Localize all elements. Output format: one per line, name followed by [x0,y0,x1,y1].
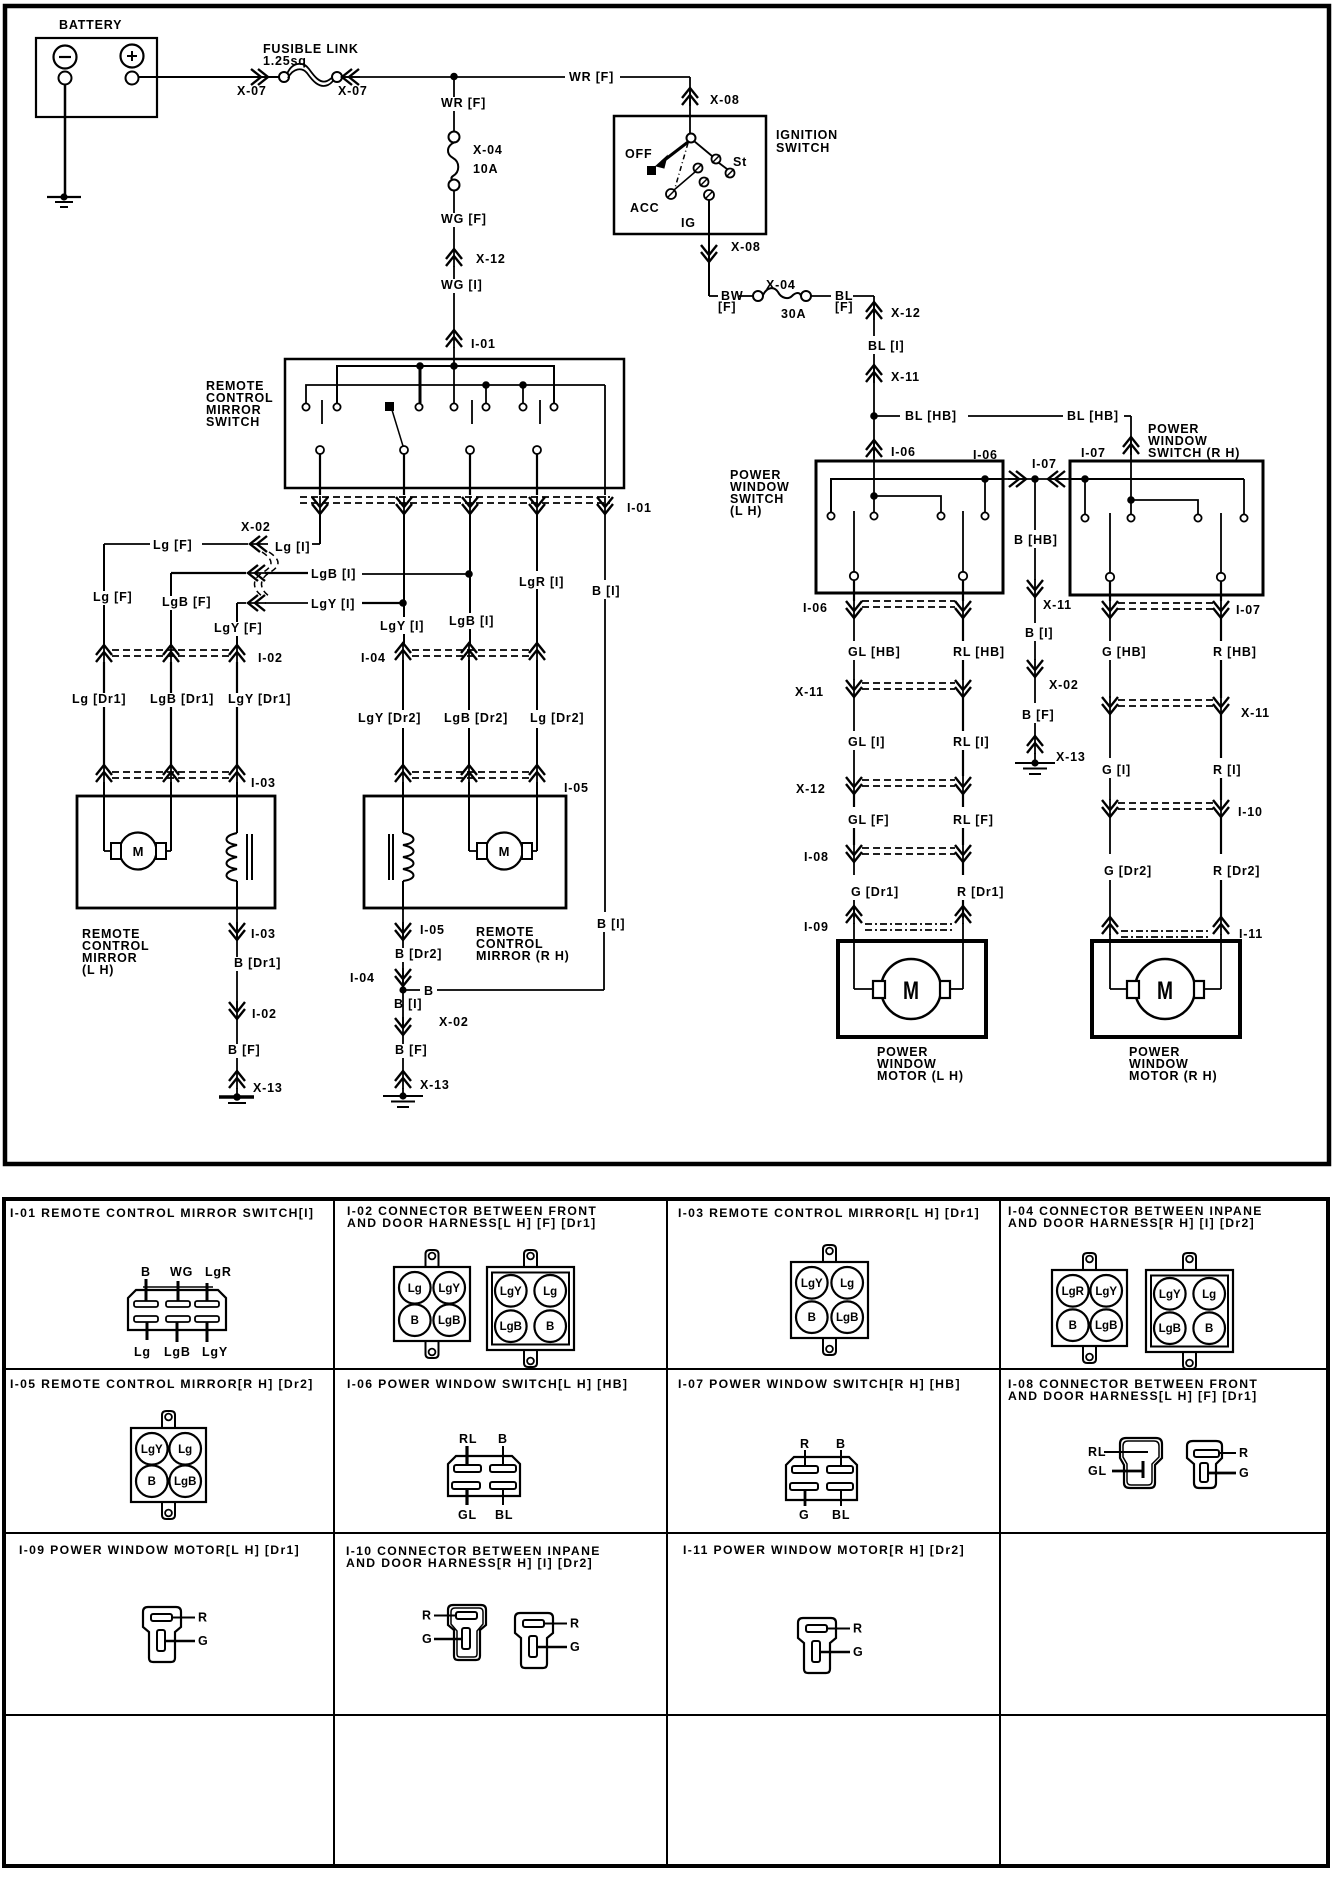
connector X-02 chevron LgY [247,602,266,604]
wire Lg [Dr2] [536,660,538,710]
connector I-07 chevron above R switch [1130,436,1132,455]
wire R [Dr2] [1220,817,1222,854]
wire LgB [Dr2] [468,660,470,710]
connector body [1052,1270,1127,1346]
svg-text:R: R [1239,1446,1249,1460]
pin lead B i06 [502,1446,504,1465]
svg-text:G: G [1239,1466,1250,1480]
RH switch feed [1130,461,1132,500]
svg-text:B: B [1205,1323,1213,1335]
svg-text:OFF: OFF [625,147,652,161]
svg-text:LgY: LgY [438,1283,460,1295]
connector X-13 chevron left [236,1070,238,1089]
svg-text:B: B [1069,1320,1077,1332]
connector X-11 chevrons [853,679,855,698]
svg-text:Lg: Lg [543,1286,557,1298]
connector I-02 dashed line [112,649,230,651]
connector X-07 right [341,76,360,78]
svg-text:LgY: LgY [1095,1286,1117,1298]
connector I-03 chevron below [236,922,238,941]
ignition IG contact [700,178,709,187]
label BW [F] [718,290,738,304]
svg-text:LgB [I]: LgB [I] [311,567,356,581]
pin GL lead line [1112,1470,1143,1473]
svg-text:RL: RL [1088,1445,1106,1459]
svg-text:GL: GL [1088,1464,1107,1478]
wire bus to I-06/I-07 [1003,478,1070,480]
pin B [534,1310,566,1342]
svg-text:R: R [422,1609,432,1623]
svg-text:I-10: I-10 [1238,805,1263,819]
svg-text:B: B [148,1476,156,1488]
svg-text:BL: BL [832,1508,850,1522]
svg-text:X-08: X-08 [731,240,761,254]
svg-text:X-12: X-12 [891,306,921,320]
pin lead LgB [176,1322,179,1342]
node LgY [I] junction [399,599,407,607]
wire G [Dr2] [1109,817,1111,854]
svg-text:I-01: I-01 [471,337,496,351]
wire LgB [I] vertical [469,514,471,613]
svg-text:LgR: LgR [1062,1286,1085,1298]
wire BL [I] [873,354,875,416]
wire B [I] vertical [604,514,606,580]
pin lead RL [465,1446,468,1465]
pin lead BL i07 [840,1490,842,1506]
pin LgB [433,1304,465,1336]
mounting tab top [1083,1253,1096,1270]
pin LgB [1154,1312,1186,1344]
connector I-09 dash-dot [865,923,952,925]
connector X-07 left [250,76,269,78]
wire RL [HB] [962,618,964,641]
connector drawing I-01 [128,1290,226,1330]
svg-text:ACC: ACC [630,201,659,215]
battery ground [47,196,81,198]
wire GL [F] [853,794,855,807]
wire WR [F] vertical [453,77,455,131]
pin LgR [1057,1275,1089,1307]
connector I-06 dashed below [862,600,955,602]
svg-text:GL: GL [458,1508,477,1522]
svg-text:R: R [198,1611,208,1625]
svg-text:(L H): (L H) [730,504,762,518]
connector I-01 chevrons [319,496,321,515]
svg-text:R [Dr2]: R [Dr2] [1213,864,1260,878]
svg-text:G: G [853,1645,864,1659]
svg-text:G: G [570,1640,581,1654]
connector I-04 chevron below [402,964,404,990]
svg-text:G [Dr1]: G [Dr1] [851,885,899,899]
svg-text:MOTOR (R H): MOTOR (R H) [1129,1069,1217,1083]
connector X-02 chevron below [402,990,404,1028]
pin lead GL [465,1489,468,1505]
svg-text:X-07: X-07 [237,84,267,98]
LH switch moving contacts [850,572,858,580]
pin LgB [1090,1309,1122,1341]
svg-text:1.25sq: 1.25sq [263,54,307,68]
svg-text:B: B [546,1321,554,1333]
mounting tab top [1183,1253,1196,1270]
RH switch contacts [1081,514,1088,521]
connector drawing I-08 right [1187,1441,1222,1488]
pin Lg [534,1275,566,1307]
connector I-08 dashed [862,847,955,849]
wires into motor RH [1109,934,1111,989]
wire WR to ignition corner [620,76,690,78]
svg-text:I-07 POWER WINDOW SWITCH[R H]: I-07 POWER WINDOW SWITCH[R H] [HB] [678,1377,961,1391]
connector I-06 chevrons below [853,600,855,619]
label B [I] mid [391,998,432,1012]
svg-text:WG: WG [170,1265,193,1279]
svg-text:SWITCH: SWITCH [776,141,830,155]
node LgB [I] junction [465,570,473,578]
svg-text:BATTERY: BATTERY [59,18,122,32]
svg-text:Lg: Lg [408,1283,422,1295]
svg-text:Lg [Dr1]: Lg [Dr1] [72,692,126,706]
mirror switch bus 1 [337,366,554,403]
node BL [HB] junction [870,412,878,420]
LH switch pole bars [853,511,855,572]
connector X-11 chevrons right [1109,696,1111,715]
node B [HB] junction [1031,475,1039,483]
svg-text:B [F]: B [F] [395,1043,427,1057]
svg-text:I-09: I-09 [804,920,829,934]
wire RL output [962,580,964,601]
svg-text:B: B [836,1437,846,1451]
svg-text:WR [F]: WR [F] [441,96,486,110]
connector I-10 chevrons [1109,799,1111,818]
svg-text:G [I]: G [I] [1102,763,1131,777]
diagram border frame [5,6,1329,1164]
svg-text:X-11: X-11 [795,685,824,699]
pin B [1193,1312,1225,1344]
svg-text:GL [HB]: GL [HB] [848,645,901,659]
wire B [F] mid [1034,677,1036,703]
label WG [F] [438,213,486,227]
fusible link [279,72,289,82]
mirror LH coil [227,833,238,881]
label LgY [F] [211,622,266,636]
svg-text:R [I]: R [I] [1213,763,1241,777]
fuse X-04 30A [753,291,763,301]
mounting tab bottom [1183,1352,1196,1369]
pin R lead line i08 [1219,1452,1236,1454]
LH switch feed [873,461,875,496]
connector I-06 chevron above L switch [873,439,875,458]
wire G [I] [1109,714,1111,758]
svg-text:I-06 POWER WINDOW SWITCH[L H]: I-06 POWER WINDOW SWITCH[L H] [HB] [347,1377,628,1391]
battery negative terminal [54,46,77,69]
svg-text:M: M [499,844,510,859]
pin Lg [399,1272,431,1304]
RH switch pole bars [1109,513,1111,573]
pin lead LgY [206,1322,209,1342]
svg-text:X-07: X-07 [338,84,368,98]
svg-text:BL [HB]: BL [HB] [905,409,957,423]
svg-text:Lg [F]: Lg [F] [93,590,133,604]
svg-text:R: R [800,1437,810,1451]
svg-text:LgB [I]: LgB [I] [449,614,494,628]
svg-text:X-13: X-13 [253,1081,283,1095]
wire I-06 drop [873,416,875,461]
power window switch LH box [816,461,1003,593]
svg-text:RL [HB]: RL [HB] [953,645,1005,659]
svg-text:BL [HB]: BL [HB] [1067,409,1119,423]
svg-text:R: R [853,1622,863,1636]
connector drawing I-07 [786,1457,857,1500]
mounting tab bottom [426,1341,439,1358]
table grid lines [333,1199,335,1866]
svg-text:LgR [I]: LgR [I] [519,575,564,589]
wire B [I] mid [1034,597,1036,623]
label Lg [F] vertical [103,544,105,645]
svg-text:R: R [570,1617,580,1631]
svg-text:St: St [733,155,747,169]
battery box [36,38,157,117]
connector I-07 dashed below [1118,602,1213,604]
LH switch contacts [827,512,834,519]
svg-text:B: B [141,1265,151,1279]
svg-text:I-04: I-04 [361,651,386,665]
fuse X-04 10A [449,132,460,143]
table frame [4,1199,1328,1866]
mirror switch moving contacts [316,446,324,454]
wire WG [F] [453,190,455,248]
svg-text:SWITCH: SWITCH [206,415,260,429]
svg-text:Lg [Dr2]: Lg [Dr2] [530,711,584,725]
svg-text:G: G [422,1632,433,1646]
svg-text:X-11: X-11 [891,370,920,384]
ignition St contact [694,141,712,156]
pin LgB [169,1465,201,1497]
pin lead LgR [206,1283,209,1301]
svg-text:X-02: X-02 [241,520,271,534]
pin lead B i07 [840,1450,842,1466]
pin lead WG [177,1281,180,1301]
svg-text:B: B [808,1312,816,1324]
wire GL [HB] [853,618,855,641]
wire LgR [I] vertical [536,514,538,571]
wire GL [I] [853,697,855,731]
svg-text:AND DOOR HARNESS[R H] [I] [Dr2: AND DOOR HARNESS[R H] [I] [Dr2] [346,1556,593,1570]
wire B [I] riser [603,931,605,990]
pin G lead line i08 [1208,1472,1236,1475]
svg-text:I-02: I-02 [258,651,283,665]
connector drawing I-09 [143,1607,181,1662]
svg-text:LgB: LgB [500,1321,522,1333]
pin Lg [831,1267,863,1299]
svg-text:I-05: I-05 [420,923,445,937]
svg-text:G [Dr2]: G [Dr2] [1104,864,1152,878]
pin B [136,1465,168,1497]
svg-text:IG: IG [681,216,696,230]
svg-text:LgB: LgB [1095,1320,1117,1332]
svg-text:AND DOOR HARNESS[R H] [I] [Dr2: AND DOOR HARNESS[R H] [I] [Dr2] [1008,1216,1255,1230]
svg-text:I-06: I-06 [973,448,998,462]
svg-text:X-04: X-04 [473,143,503,157]
connector drawing I-11 [798,1618,836,1673]
svg-text:LgY: LgY [141,1444,163,1456]
connector X-08 chevron bottom [708,244,710,263]
svg-text:I-03: I-03 [251,776,276,790]
svg-text:LgB: LgB [1159,1323,1181,1335]
wire LgY [F] corner [236,603,238,645]
svg-text:B [I]: B [I] [1025,626,1053,640]
connector I-04 chevrons [402,642,404,661]
pin lead BL i06 [502,1489,504,1505]
connector I-06 chevron right [1008,478,1027,480]
svg-text:(L H): (L H) [82,963,114,977]
mirror switch contacts top row [302,403,309,410]
connector X-11 dashed [862,682,955,684]
wire B [F] left [236,1019,238,1071]
label LgB [F] [159,596,214,610]
pin LgY [1154,1278,1186,1310]
svg-text:LgY: LgY [801,1278,823,1290]
svg-text:G: G [799,1508,810,1522]
connector I-08 chevrons [853,844,855,863]
wire RL [F] [962,794,964,807]
wire LgY [I] horizontal [265,602,308,604]
mounting tab bottom [1083,1346,1096,1363]
svg-text:LgB: LgB [836,1312,858,1324]
mounting tab bottom [162,1502,175,1519]
svg-text:Lg [F]: Lg [F] [153,538,193,552]
pin LgB [831,1301,863,1333]
remote control mirror RH box [364,796,566,908]
svg-text:M: M [133,844,144,859]
svg-text:WG [F]: WG [F] [441,212,487,226]
svg-text:X-11: X-11 [1043,598,1072,612]
ignition switch box [614,116,766,234]
svg-text:MIRROR (R H): MIRROR (R H) [476,949,570,963]
connector drawing I-06 [448,1456,520,1496]
wire motor LH left [104,850,111,852]
svg-text:I-02: I-02 [252,1007,277,1021]
connector X-02 chevron mid [1034,659,1036,678]
pin Lg [1193,1278,1225,1310]
svg-text:LgY [I]: LgY [I] [311,597,355,611]
pin lead R i07 [804,1450,806,1466]
wire R [I] [1220,714,1222,758]
svg-text:LgY [I]: LgY [I] [380,619,424,633]
connector I-05 dashed line [412,771,530,773]
svg-text:X-11: X-11 [1241,706,1270,720]
pin slot i08 [1200,1463,1208,1482]
wire drop to I-07 [1130,416,1132,461]
svg-text:I-07: I-07 [1081,446,1106,460]
pin LgY [796,1267,828,1299]
wire Lg [F] / Lg [I] [104,543,150,545]
connector I-11 chevrons [1109,916,1111,935]
connector I-07 chevron left [1047,478,1066,480]
wire B [HB] down [1034,479,1036,530]
svg-text:RL [I]: RL [I] [953,735,990,749]
pin lead Lg [146,1322,149,1340]
wire into mirror LH [103,782,105,851]
connector X-11 chevron [873,364,875,383]
pin lead B [145,1279,148,1301]
wire RL [I] [962,697,964,731]
connector I-03 chevrons [103,764,105,783]
svg-text:I-11 POWER WINDOW MOTOR[R H] [: I-11 POWER WINDOW MOTOR[R H] [Dr2] [683,1543,965,1557]
power window motor LH box [838,941,986,1037]
wire R [HB] [1220,618,1222,641]
wire B [Dr1] [236,910,238,1012]
svg-text:X-12: X-12 [476,252,506,266]
svg-text:LgY [F]: LgY [F] [214,621,262,635]
wire WR to ignition switch [689,77,691,116]
power window switch RH box [1070,461,1263,595]
svg-text:X-13: X-13 [420,1078,450,1092]
wire motor LH terminals [854,988,873,990]
svg-text:LgB: LgB [438,1315,460,1327]
svg-text:BL [I]: BL [I] [868,339,905,353]
svg-text:LgR: LgR [205,1265,232,1279]
svg-text:LgB: LgB [164,1345,191,1359]
wire IG out [708,200,710,234]
connector I-02 chevron below [236,1001,238,1020]
wire R [Dr1] [962,862,964,875]
svg-text:M: M [1157,977,1173,1005]
connector drawing I-10 right [515,1613,553,1668]
dashed connector X-02 curve [255,552,272,596]
wire G [HB] [1109,618,1111,641]
ground right mirror [383,1095,423,1097]
connector X-02 chevron LgB [247,572,266,574]
pin B [399,1304,431,1336]
mounting tab top [524,1250,537,1267]
svg-text:LgB [F]: LgB [F] [162,595,211,609]
connector body [131,1428,206,1502]
svg-text:I-07: I-07 [1236,603,1261,617]
label BL [I] [865,340,913,354]
mounting tab top [823,1245,836,1262]
connector body [394,1267,470,1341]
svg-text:RL: RL [459,1432,477,1446]
connector body [487,1267,574,1350]
svg-text:[F]: [F] [718,300,736,314]
connector I-01 chevron [453,329,455,348]
svg-text:LgY: LgY [1159,1289,1181,1301]
mounting tab bottom [823,1338,836,1355]
connector body [791,1262,868,1338]
pin Lg [169,1433,201,1465]
svg-text:AND DOOR HARNESS[L H] [F] [Dr1: AND DOOR HARNESS[L H] [F] [Dr1] [347,1216,596,1230]
wire WG [I] [453,266,455,330]
svg-text:B: B [498,1432,508,1446]
svg-text:R [HB]: R [HB] [1213,645,1257,659]
mirror switch lever [392,410,403,446]
wire LgB [Dr1] [170,662,172,765]
wire R output [1220,581,1222,601]
ignition switch pivot [689,116,691,134]
connector I-05 chevron below [402,922,404,941]
svg-text:G: G [198,1634,209,1648]
svg-text:B [I]: B [I] [597,917,625,931]
svg-text:Lg: Lg [134,1345,151,1359]
svg-text:I-03: I-03 [251,927,276,941]
svg-text:10A: 10A [473,162,498,176]
pin LgY [136,1433,168,1465]
svg-text:M: M [903,977,919,1005]
connector X-13 chevron mid [1034,735,1036,754]
wire B [F] right [402,1035,404,1071]
pin LgB [495,1310,527,1342]
node B junction [399,986,406,993]
pin B [1057,1309,1089,1341]
